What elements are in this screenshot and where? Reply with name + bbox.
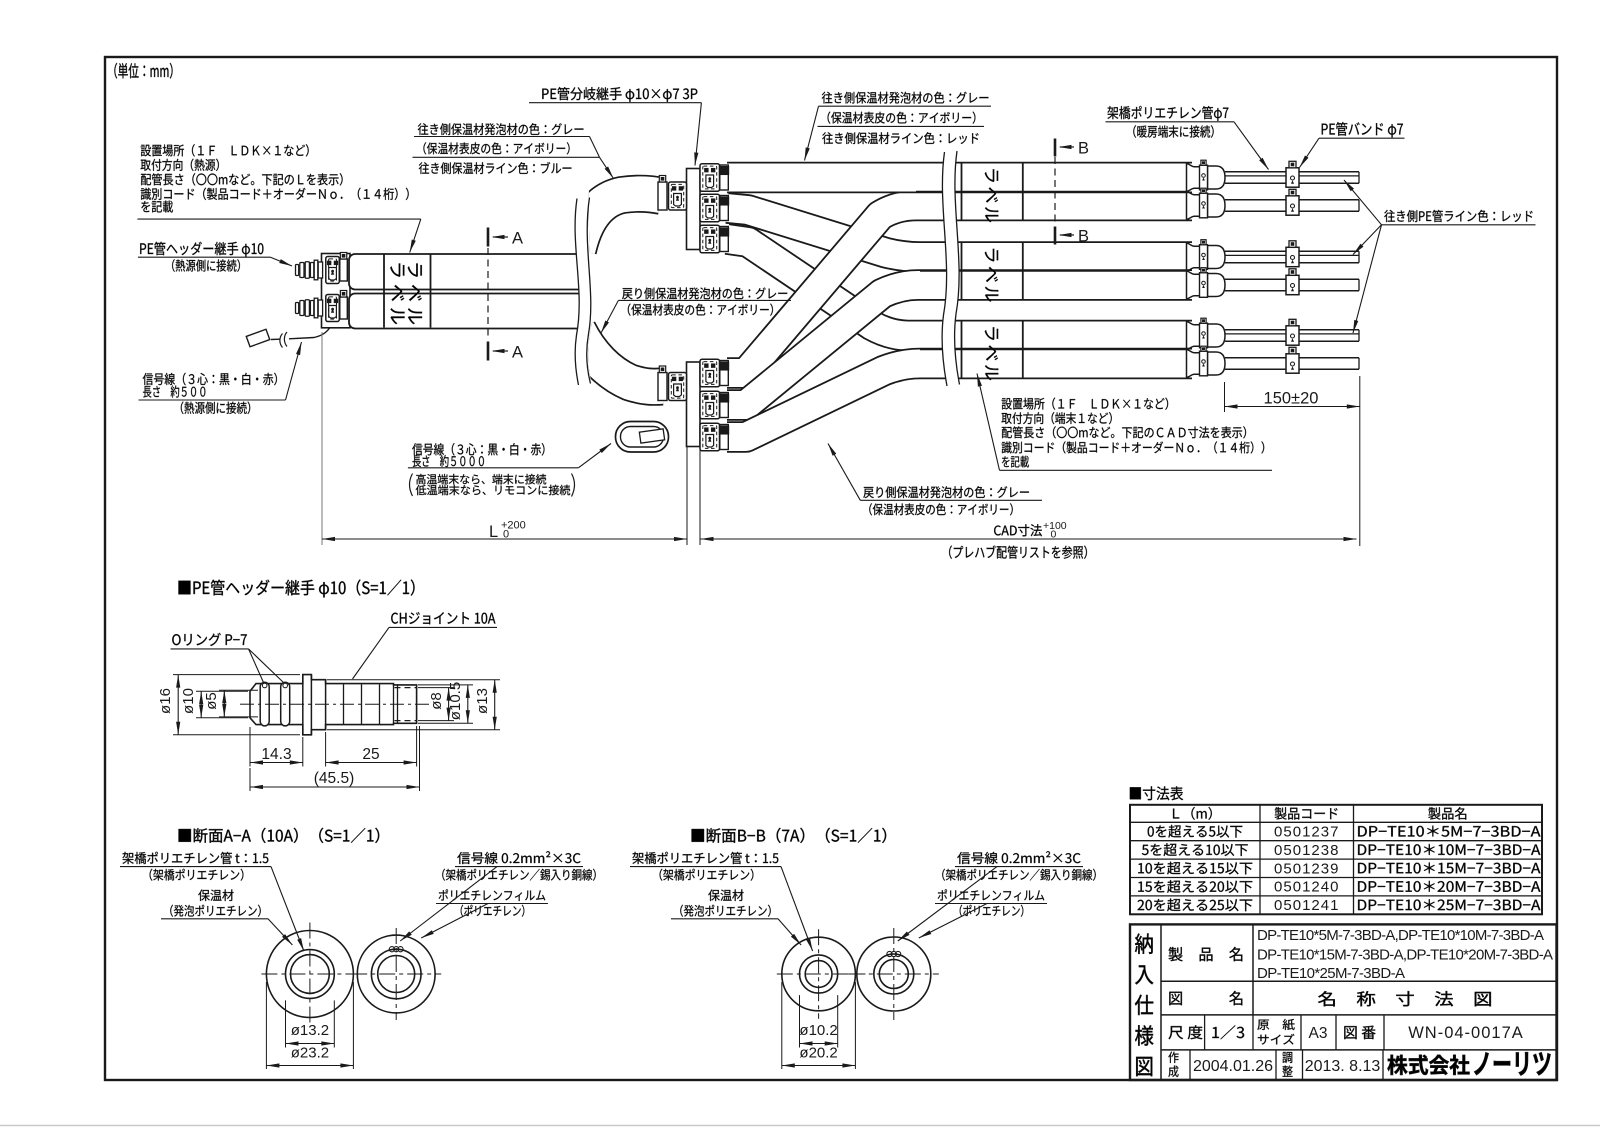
branch tube B3 (to pair3 return) — [727, 364, 1192, 438]
signal wire at header — [289, 328, 330, 339]
label installation info left — [141, 144, 309, 156]
svg-text:A: A — [512, 230, 523, 248]
detail title header joint — [178, 579, 414, 597]
product name cell — [1169, 947, 1243, 961]
svg-text:0501239: 0501239 — [1274, 860, 1339, 877]
break line at distribution tubes — [942, 151, 959, 386]
outlet band top block 1 — [719, 165, 728, 190]
dimension CAD — [701, 538, 1357, 540]
PE pipe 6 — [1225, 357, 1359, 359]
dimension 150 — [1224, 382, 1226, 412]
signal wire cross-section right circle — [857, 937, 931, 1011]
svg-text:0501237: 0501237 — [1274, 824, 1339, 841]
outlet band bottom block 3 — [719, 425, 728, 450]
fitting centerline — [240, 703, 433, 705]
dimension table heading — [1130, 786, 1183, 800]
PE pipe band 1 — [1286, 161, 1299, 187]
header fitting 2 — [296, 291, 348, 322]
label supply insulation left — [418, 123, 584, 135]
section title — [692, 828, 887, 843]
distribution tube end cap 6 — [1187, 346, 1226, 377]
section dimensions — [285, 1000, 287, 1047]
unit note — [114, 63, 172, 79]
PE pipe 1 — [1225, 171, 1359, 173]
label return insulation middle — [622, 287, 787, 299]
svg-text:DP-TE10*15M-7-3BD-A,DP-TE10*20: DP-TE10*15M-7-3BD-A,DP-TE10*20M-7-3BD-A — [1257, 947, 1553, 964]
svg-text:ø13.2: ø13.2 — [291, 1022, 329, 1039]
branch tube T1 (to pair1 supply) — [727, 162, 1192, 194]
section title — [179, 828, 380, 843]
dim phi5 — [219, 689, 258, 691]
label box on header tubes — [383, 255, 385, 328]
table row 5 — [1138, 899, 1253, 912]
svg-text:ø5: ø5 — [203, 692, 220, 710]
PE pipe band 5 — [1286, 319, 1299, 345]
section A marker bottom — [487, 342, 490, 361]
section labels — [632, 852, 778, 864]
date cell — [1189, 1050, 1191, 1080]
label PE pipe band — [1322, 122, 1403, 137]
svg-text:0501238: 0501238 — [1274, 842, 1339, 859]
dim phi8 — [418, 687, 454, 689]
label box on distribution pair — [961, 164, 963, 220]
dimension table — [1130, 805, 1542, 915]
scale cell — [1204, 1015, 1206, 1050]
label branch joint — [542, 87, 697, 102]
Noritz logo — [1387, 1055, 1469, 1075]
distribution tube end cap 3 — [1187, 240, 1226, 271]
PE pipe 4 — [1225, 278, 1359, 280]
table row 2 — [1142, 843, 1248, 856]
outlet band top block 3 — [719, 227, 728, 252]
label PE-X pipe — [1107, 106, 1228, 121]
label O-ring — [172, 633, 247, 646]
note prefab list — [949, 546, 1087, 559]
svg-text:ø13: ø13 — [474, 688, 491, 714]
svg-text:ø10.2: ø10.2 — [799, 1022, 837, 1039]
svg-text:14.3: 14.3 — [261, 746, 291, 763]
PE pipe band 4 — [1286, 269, 1299, 295]
svg-text:0501240: 0501240 — [1274, 879, 1339, 896]
dim phi16 — [173, 674, 300, 676]
supply tube from header — [349, 254, 585, 290]
branch tube B2 (to pair2 return) — [727, 285, 1192, 405]
return tube from header — [349, 294, 585, 329]
table row 4 — [1138, 880, 1252, 893]
table row 1 — [1148, 825, 1243, 838]
svg-text:0: 0 — [1051, 529, 1057, 541]
svg-text:DP-TE10*5M-7-3BD-A,DP-TE10*10M: DP-TE10*5M-7-3BD-A,DP-TE10*10M-7-3BD-A — [1257, 927, 1544, 944]
label supply PE pipe line color — [1384, 210, 1532, 222]
inlet band bottom block — [658, 366, 667, 401]
title block label nounyuu shiyouzu — [1135, 933, 1153, 953]
dim phi10 — [196, 690, 248, 692]
label supply insulation right — [822, 92, 989, 104]
signal wire cross-section right circle — [357, 935, 435, 1013]
outlet clip bottom block 1 — [700, 359, 720, 387]
svg-text:ø16: ø16 — [157, 688, 174, 714]
label installation info right — [1002, 398, 1169, 410]
svg-text:25: 25 — [362, 746, 379, 763]
PE pipe band 2 — [1286, 189, 1299, 215]
distribution tube end cap 4 — [1187, 268, 1226, 299]
fitting bore dashed — [395, 687, 417, 689]
inlet band top block — [658, 176, 667, 211]
svg-text:B: B — [1078, 228, 1089, 246]
svg-text:2013. 8.13: 2013. 8.13 — [1305, 1058, 1381, 1075]
O-ring 2 — [281, 682, 290, 726]
PE pipe band 6 — [1286, 347, 1299, 373]
drawing name cell — [1169, 991, 1242, 1005]
O-ring 1 — [260, 682, 269, 726]
svg-text:A3: A3 — [1309, 1025, 1328, 1042]
fitting body — [250, 675, 417, 735]
extension line header left — [321, 332, 323, 545]
section labels — [122, 852, 268, 864]
label text on header tubes — [390, 264, 404, 325]
PE pipe 3 — [1225, 250, 1359, 252]
label box on distribution pair — [961, 322, 963, 378]
svg-text:ø10.5: ø10.5 — [447, 682, 464, 720]
svg-text:DP-TE10*25M-7-3BD-A: DP-TE10*25M-7-3BD-A — [1257, 965, 1405, 982]
return loop arc — [578, 330, 662, 387]
table row 3 — [1138, 862, 1252, 875]
svg-text:ø8: ø8 — [428, 692, 445, 710]
table header row — [1173, 807, 1212, 820]
branch tube T2 (to pair2 supply) — [727, 208, 1192, 257]
section B-B cut line — [1054, 157, 1056, 226]
outlet clip top block 1 — [700, 164, 720, 192]
outlet clip bottom block 2 — [700, 391, 720, 419]
outlet band top block 2 — [719, 196, 728, 221]
header fitting 1 (PE pipe header joint) — [296, 253, 348, 284]
inlet clip top block — [669, 182, 687, 210]
PE pipe 2 — [1225, 199, 1359, 201]
outlet clip top block 2 — [700, 194, 720, 222]
label box on distribution pair — [961, 243, 963, 299]
svg-text:0501241: 0501241 — [1274, 897, 1339, 914]
svg-text:ø20.2: ø20.2 — [799, 1045, 837, 1062]
svg-text:(45.5): (45.5) — [314, 770, 355, 787]
label signal wire 5000 — [412, 443, 544, 456]
outlet band bottom block 2 — [719, 393, 728, 418]
dim 25 — [325, 732, 327, 767]
outlet band bottom block 1 — [719, 361, 728, 386]
section A-A cut line — [487, 248, 489, 340]
note signal wire connection — [416, 474, 546, 485]
pipe cross-section left circle — [266, 931, 353, 1018]
dimension L — [322, 538, 687, 540]
title block frame — [1130, 924, 1557, 1080]
svg-text:ø23.2: ø23.2 — [291, 1045, 329, 1062]
dim 14.3 — [249, 727, 251, 767]
outlet clip bottom block 3 — [700, 423, 720, 451]
label signal wire 500 — [143, 373, 277, 386]
dim phi13 — [327, 679, 500, 681]
label header joint — [140, 242, 263, 257]
svg-text:0: 0 — [503, 529, 509, 541]
section B marker top — [1054, 139, 1057, 157]
svg-text:150±20: 150±20 — [1264, 390, 1319, 408]
svg-text:WN-04-0017A: WN-04-0017A — [1408, 1024, 1524, 1042]
svg-text:A: A — [512, 344, 523, 362]
break line at header tubes — [575, 198, 591, 386]
svg-text:L: L — [489, 523, 498, 541]
pipe cross-section left circle — [782, 937, 856, 1011]
fitting barbs — [343, 684, 345, 724]
label return insulation bottom — [863, 486, 1029, 498]
PE pipe band 3 — [1286, 241, 1299, 267]
section A marker top — [487, 228, 490, 247]
section B marker bottom — [1054, 227, 1057, 245]
section dimensions — [799, 995, 801, 1047]
wire stub below block — [686, 447, 688, 546]
label CH joint — [391, 612, 495, 624]
extension line right pipes end — [1359, 376, 1361, 546]
distribution tube end cap 2 — [1187, 188, 1226, 219]
branch tube B1 (to pair1 return) — [727, 206, 1192, 374]
pair shared edges — [916, 191, 1187, 193]
distribution tube end cap 1 — [1187, 160, 1226, 191]
outlet clip top block 3 — [700, 225, 720, 253]
distribution tube end cap 5 — [1187, 318, 1226, 349]
header block — [322, 254, 351, 328]
branch tube T3 (to pair3 supply) — [727, 239, 1192, 336]
dim phi10.5 — [418, 684, 473, 686]
svg-text:ø10: ø10 — [180, 688, 197, 714]
branch joint block top — [687, 169, 701, 250]
svg-text:2004.01.26: 2004.01.26 — [1193, 1058, 1273, 1075]
PE pipe 5 — [1225, 329, 1359, 331]
supply loop arc — [578, 194, 662, 250]
coiled signal wire — [616, 422, 669, 453]
dim 45.5 overall — [419, 726, 421, 791]
inlet clip bottom block — [669, 373, 687, 401]
branch joint block bottom — [687, 362, 701, 447]
scan artifact bottom line — [0, 1125, 1600, 1127]
svg-text:B: B — [1078, 140, 1089, 158]
